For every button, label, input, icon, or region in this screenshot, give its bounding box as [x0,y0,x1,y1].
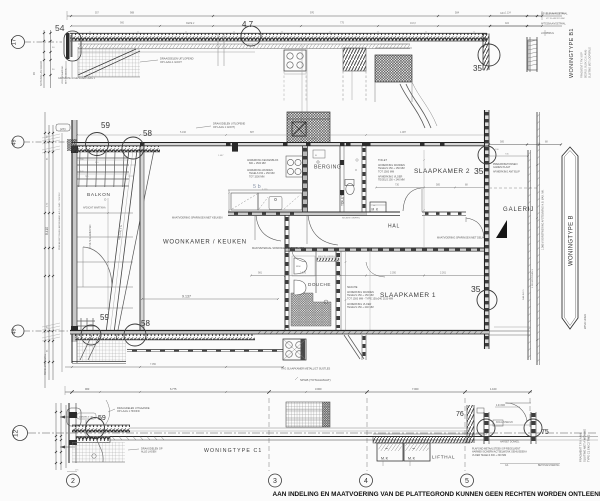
svg-text:3.125: 3.125 [262,189,268,191]
svg-text:12: 12 [13,429,20,437]
svg-text:5.193: 5.193 [310,137,317,140]
svg-text:585: 585 [500,141,505,144]
svg-text:DOUCHE: DOUCHE [308,282,331,287]
svg-text:LIFTHAL: LIFTHAL [432,455,455,460]
svg-text:SLUITING MET A WONING: SLUITING MET A WONING [583,429,587,462]
svg-text:35: 35 [474,166,484,176]
svg-text:M.K: M.K [408,457,416,461]
svg-text:4.04 MM: 4.04 MM [496,405,505,407]
svg-text:VLOER TEGELS 300 + 300 MM: VLOER TEGELS 300 + 300 MM [472,454,506,457]
svg-text:5 b: 5 b [253,184,261,190]
svg-text:GRANTATE W.GEHAUER LAAG 1: GRANTATE W.GEHAUER LAAG 1 [58,77,96,80]
svg-text:WONINGTYPE C1: WONINGTYPE C1 [204,448,262,454]
svg-text:504: 504 [455,12,460,15]
svg-text:35: 35 [471,284,481,294]
svg-text:OP LAAG 1 HOOFD: OP LAAG 1 HOOFD [117,410,140,413]
svg-text:59: 59 [101,121,110,130]
svg-text:75: 75 [541,429,549,436]
svg-text:2.350: 2.350 [390,272,397,275]
svg-text:~: ~ [412,447,415,453]
svg-text:KOLG-STEM 26: KOLG-STEM 26 [496,422,513,424]
svg-text:M K: M K [372,208,380,212]
svg-text:7.050: 7.050 [150,363,157,366]
svg-text:WONINGTYPE B: WONINGTYPE B [568,215,574,266]
svg-text:BERGING: BERGING [314,165,341,171]
svg-text:585: 585 [436,184,441,187]
svg-text:HARSET DONKEL: HARSET DONKEL [500,441,520,444]
svg-text:G04: G04 [500,12,505,15]
svg-text:7.000: 7.000 [412,387,419,391]
svg-text:35: 35 [473,64,482,73]
svg-text:TOILET: TOILET [341,195,345,206]
svg-text:887: 887 [250,131,255,134]
svg-text:W.M: W.M [296,266,301,268]
svg-text:SCHUIMGLAS KERAM: SCHUIMGLAS KERAM [40,61,43,86]
svg-text:BEDR.S. BLOK C.N. AAN): BEDR.S. BLOK C.N. AAN) [585,50,588,78]
svg-text:BEVELMATERIAAL: BEVELMATERIAAL [44,353,47,375]
svg-text:800 + 1500 MM: 800 + 1500 MM [249,162,266,165]
svg-text:4: 4 [364,478,368,485]
svg-text:49: 49 [12,328,18,334]
svg-text:730: 730 [395,184,400,187]
svg-text:BEH DE CE HA: BEH DE CE HA [65,68,68,84]
svg-text:STULTE ELEMENTEN: STULTE ELEMENTEN [90,224,92,248]
svg-text:SLAAPKAMER 2: SLAAPKAMER 2 [414,168,470,175]
svg-text:TEGELS 150 + 240 MM: TEGELS 150 + 240 MM [347,306,374,309]
svg-text:FRAGMENT T.P.V. AAN-: FRAGMENT T.P.V. AAN- [579,433,583,462]
svg-text:3: 3 [273,478,277,485]
svg-text:~: ~ [385,447,388,453]
svg-text:981: 981 [258,272,263,275]
svg-text:AFTESNAAIVOETPAAL: AFTESNAAIVOETPAAL [541,23,566,26]
svg-text:5.196: 5.196 [180,131,187,134]
svg-text:BALKON: BALKON [87,192,111,198]
svg-text:963: 963 [85,387,90,391]
svg-text:KEUKTE GRIFFEL: KEUKTE GRIFFEL [318,256,336,258]
svg-text:BETONAFVOERING: BETONAFVOERING [538,464,560,467]
svg-text:AFDICHT MARTXHA: AFDICHT MARTXHA [83,207,106,210]
svg-text:WIND HOEK: WIND HOEK [583,314,587,329]
svg-text:59: 59 [100,313,109,322]
svg-text:CA.: CA. [505,464,509,467]
svg-text:AFWERKING ANTISLIP: AFWERKING ANTISLIP [493,171,520,174]
svg-text:775: 775 [340,22,345,25]
svg-text:SLAAPKAMER 1: SLAAPKAMER 1 [380,292,436,299]
svg-text:AAN INDELING EN MAATVOERING VA: AAN INDELING EN MAATVOERING VAN DE PLATT… [273,491,600,498]
svg-text:KEPE 2: KEPE 2 [186,22,195,25]
svg-text:76: 76 [456,411,464,418]
svg-text:OP LAAG 1 GOOT): OP LAAG 1 GOOT) [213,126,235,129]
svg-text:1.087: 1.087 [218,155,224,157]
svg-text:9.137: 9.137 [182,295,191,299]
svg-text:17: 17 [12,38,18,45]
svg-text:58: 58 [141,319,150,328]
svg-text:WOONKAMER / KEUKEN: WOONKAMER / KEUKEN [163,240,247,246]
svg-text:DAKBELS OP: DAKBELS OP [79,416,93,419]
svg-text:MAATVOERING SPARINGEN MET KEUK: MAATVOERING SPARINGEN MET KEUKEN [172,217,223,220]
svg-text:TOILET: TOILET [378,158,387,162]
svg-text:908: 908 [130,12,135,15]
svg-text:SLUITING MET LOOPBRUG: SLUITING MET LOOPBRUG [589,47,592,78]
svg-text:900: 900 [120,22,125,25]
svg-text:TEGELS 150 + 240 MM: TEGELS 150 + 240 MM [378,179,405,182]
svg-text:TRG SLAAPKAMER METALLICT SUSTL: TRG SLAAPKAMER METALLICT SUSTLES [281,368,331,371]
svg-text:PREFAB BETONNEN AFDEKBAND A.D.: PREFAB BETONNEN AFDEKBAND A.D.H. RAD. T.… [58,192,61,250]
svg-text:GALERIJ: GALERIJ [503,207,534,213]
svg-text:1.087: 1.087 [400,131,407,134]
svg-text:SRAUHE: SRAUHE [347,286,358,289]
svg-text:M.K: M.K [381,457,389,461]
svg-text:MAATVOERING SPARINGEN MET DELA: MAATVOERING SPARINGEN MET DELACTA [437,237,489,240]
svg-text:WONINGTYPE B1: WONINGTYPE B1 [569,28,575,78]
svg-text:2.261: 2.261 [440,272,447,275]
svg-text:1.170: 1.170 [300,272,307,275]
svg-text:TOT 1500 MM: TOT 1500 MM [378,170,394,173]
svg-text:54: 54 [55,23,65,33]
svg-text:58: 58 [143,129,152,138]
svg-text:1.124: 1.124 [505,13,511,15]
svg-text:ALLE LAGEN: ALLE LAGEN [141,451,156,454]
svg-text:FRAGMENT T.P.V. KOP: FRAGMENT T.P.V. KOP [581,52,584,78]
svg-text:493,8: 493,8 [410,23,416,25]
svg-text:O: O [355,169,357,172]
svg-text:5: 5 [465,478,469,485]
svg-text:VC 19+HW 970 MM: VC 19+HW 970 MM [546,18,565,20]
svg-text:59: 59 [98,415,106,422]
svg-text:GEVELSNAAIVOETPAAL: GEVELSNAAIVOETPAAL [541,13,568,16]
svg-text:4 7: 4 7 [242,20,254,29]
svg-text:VOG GEWAPEND: VOG GEWAPEND [61,65,64,84]
svg-text:6.775: 6.775 [170,387,177,391]
svg-text:OP LAAG 1 GOOT: OP LAAG 1 GOOT [160,60,182,64]
svg-text:8.410: 8.410 [45,227,49,235]
svg-text:1.100: 1.100 [490,387,497,391]
svg-text:MAATVETERAAL SPARINGEN W TEGEL: MAATVETERAAL SPARINGEN W TEGELKER [252,247,304,250]
svg-text:2: 2 [71,478,75,485]
svg-text:924: 924 [505,22,510,25]
svg-text:DRAAGDELEN UITLOPEND: DRAAGDELEN UITLOPEND [160,57,194,61]
svg-text:RAILING 5: RAILING 5 [522,289,525,300]
svg-text:KELINTE GRIFFEL: KELINTE GRIFFEL [342,218,361,220]
svg-text:TYPE C1 EN C2 T/M 2: TYPE C1 EN C2 T/M 2 [587,434,591,462]
svg-text:TOT 1500 MM: TOT 1500 MM [249,175,264,178]
svg-text:SPGB (TOTAALMAAT): SPGB (TOTAALMAAT) [300,378,331,382]
svg-text:970: 970 [310,12,315,15]
svg-text:3.000: 3.000 [315,387,322,391]
svg-text:HAL: HAL [388,224,400,230]
svg-text:49: 49 [12,139,18,145]
svg-text:GADEN PLAAT: GADEN PLAAT [493,166,511,169]
svg-text:1.500 KOZIJNEN S: 1.500 KOZIJNEN S [532,268,534,288]
svg-text:(2X): (2X) [60,127,66,131]
svg-text:LOOPBRUG: LOOPBRUG [541,33,554,35]
svg-text:1.060 M BORSTWERING AFSTEMMING: 1.060 M BORSTWERING AFSTEMMING H.B. MAX.… [542,189,545,250]
